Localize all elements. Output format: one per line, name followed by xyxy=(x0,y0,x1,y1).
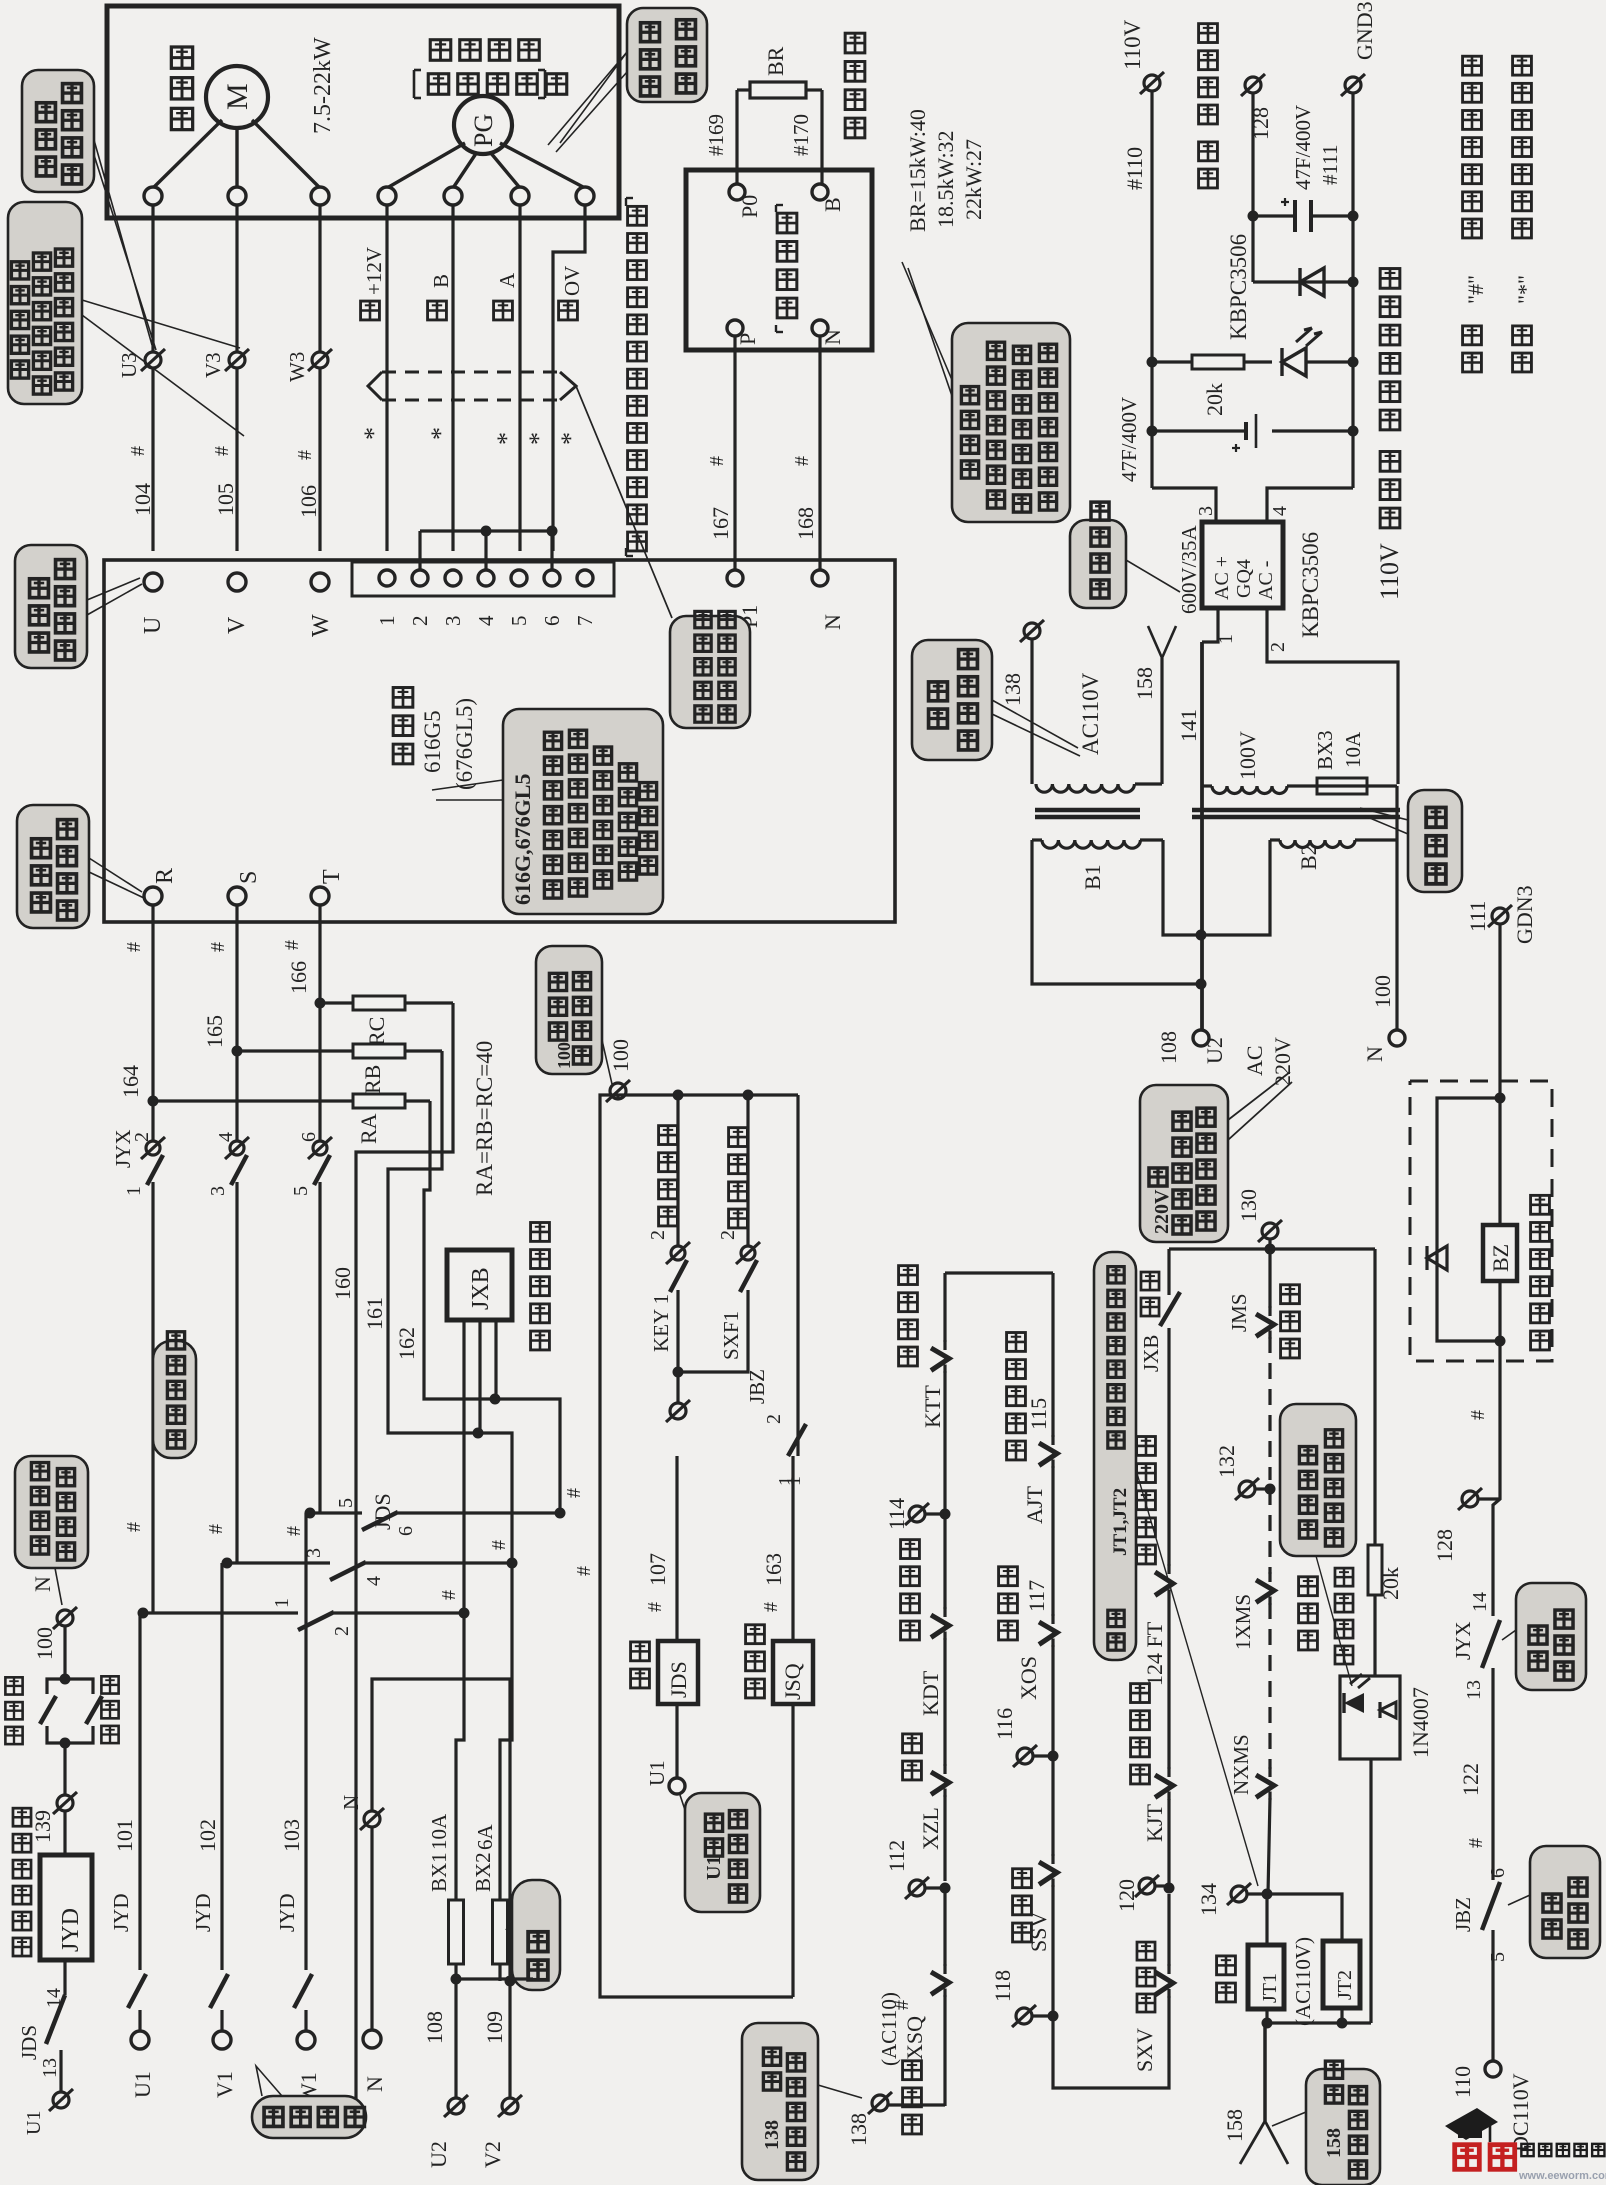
terminal 116 xyxy=(992,1708,1059,1856)
wire U2 rail junctions xyxy=(1196,930,1207,990)
switch XZL rope-tension xyxy=(931,1764,949,1881)
capacitor 47uF/400V top xyxy=(1253,105,1353,232)
winding B1 primary xyxy=(1032,840,1163,848)
wire 134 to JT1 xyxy=(1267,1894,1342,1945)
label 首层钥匙 xyxy=(659,1126,678,1226)
label 变频器故障 124 FT xyxy=(1137,1437,1167,1686)
terminal P0 xyxy=(729,184,762,218)
svg-text:110V: 110V xyxy=(1375,543,1404,600)
fuse BX3 xyxy=(1313,730,1397,794)
terminal N 100 xyxy=(1362,975,1405,1062)
svg-text:+12V: +12V xyxy=(362,247,386,295)
terminal N inverter xyxy=(812,570,845,630)
label 7.5-22kW xyxy=(310,37,336,134)
label 旋转编码 xyxy=(430,40,539,61)
terminal N brake xyxy=(812,320,845,345)
bubble 变压器 xyxy=(1360,790,1462,892)
svg-text:#170: #170 xyxy=(789,114,813,156)
bubble 三相电源 xyxy=(252,2066,366,2138)
wire GND3 rail xyxy=(1348,94,1359,488)
wire encoder red +12V xyxy=(385,205,388,551)
svg-text:U1: U1 xyxy=(23,2111,45,2135)
wire T phase down xyxy=(315,905,326,1140)
breaker contact U3 xyxy=(117,349,165,378)
terminal N main xyxy=(30,1576,77,1660)
svg-text:#110: #110 xyxy=(1122,147,1147,190)
wire FT up to JXB contact xyxy=(1167,1328,1170,1456)
switch XSQ governor xyxy=(931,1964,949,2106)
wire phase T to row xyxy=(318,1456,321,1513)
svg-text:158: 158 xyxy=(1323,2128,1345,2158)
svg-text:BX3: BX3 xyxy=(1313,730,1337,770)
svg-text:A: A xyxy=(495,272,519,288)
svg-text:616G5: 616G5 xyxy=(420,710,445,773)
svg-text:BZ: BZ xyxy=(1488,1244,1513,1272)
label 消防开关 xyxy=(729,1128,748,1228)
svg-text:1: 1 xyxy=(775,1476,797,1486)
label 1N4007 xyxy=(1408,1687,1433,1758)
label 轿门锁 xyxy=(1281,1285,1300,1358)
svg-text:GQ4: GQ4 xyxy=(1233,559,1255,598)
breaker contact W3 xyxy=(285,349,332,382)
svg-text:166: 166 xyxy=(286,961,311,994)
svg-text:100: 100 xyxy=(1370,975,1395,1008)
svg-text:100: 100 xyxy=(608,1039,633,1072)
phase W1 riser xyxy=(275,1513,321,2104)
svg-text:OV: OV xyxy=(560,266,584,296)
label 160 161 162 xyxy=(330,1267,419,1360)
label 制动电阻 xyxy=(845,33,865,138)
svg-text:110V: 110V xyxy=(1120,19,1145,70)
svg-text:KDT: KDT xyxy=(918,1670,943,1716)
svg-text:7.5-22kW: 7.5-22kW xyxy=(310,37,336,134)
wire from fuse to N rail xyxy=(1395,786,1398,840)
switch KDT pit stop xyxy=(931,1607,949,1766)
wire B2 left down xyxy=(1201,840,1270,935)
wire JDS to U1 xyxy=(675,1704,678,1778)
contact JBZ 1-2 xyxy=(666,1369,785,1424)
wires JXB outputs xyxy=(464,1320,560,1613)
label 操纵盘急停 115 AJT xyxy=(1007,1333,1051,1524)
terminal 118 xyxy=(990,1970,1059,2027)
label # 168 xyxy=(791,456,818,540)
label 上限位 SSV xyxy=(1013,1869,1051,1952)
wire 138 to winding xyxy=(1030,640,1033,784)
terminal 128 top xyxy=(1241,74,1273,140)
svg-text:5: 5 xyxy=(290,1186,312,1196)
svg-text:B: B xyxy=(429,274,453,288)
svg-text:#111: #111 xyxy=(1318,145,1342,185)
bubble 熔丝 xyxy=(506,1880,560,1990)
svg-text:#: # xyxy=(563,1488,585,1498)
wire 100 right drop xyxy=(796,1095,799,1456)
label XSQ限速器 xyxy=(902,2016,927,2134)
winding AC110V secondary xyxy=(1036,658,1162,792)
label 控柜急停 KJT xyxy=(1131,1684,1167,1842)
svg-text:112: 112 xyxy=(884,1840,909,1872)
wire 128 stub xyxy=(1248,94,1259,282)
svg-text:*: * xyxy=(359,427,388,440)
motor terminals xyxy=(144,187,329,205)
label 166 xyxy=(286,961,311,994)
svg-text:BR=15kW:40: BR=15kW:40 xyxy=(905,109,930,232)
terminal U1 bottom-left xyxy=(23,2058,73,2135)
svg-text:XOS: XOS xyxy=(1016,1656,1041,1700)
svg-text:118: 118 xyxy=(990,1970,1015,2002)
svg-text:3: 3 xyxy=(441,616,465,627)
svg-text:160: 160 xyxy=(330,1267,355,1300)
switch AJT panel stop xyxy=(1039,1273,1057,1616)
label KBPC3506 lower xyxy=(1298,532,1323,638)
terminal 100 mid xyxy=(606,1039,633,1102)
svg-text:103: 103 xyxy=(279,1819,304,1852)
svg-text:U1: U1 xyxy=(703,1856,725,1880)
motor leads xyxy=(153,120,320,188)
bubble 编码器的参数 xyxy=(548,8,707,152)
wire 310 drop xyxy=(309,1512,311,1514)
svg-text:4: 4 xyxy=(363,1576,385,1586)
svg-text:139: 139 xyxy=(30,1810,55,1843)
svg-text:KTT: KTT xyxy=(920,1385,945,1428)
svg-text:2: 2 xyxy=(408,616,432,627)
label 122 # xyxy=(1458,1763,1487,1848)
fuse BX1 xyxy=(427,1613,464,1985)
svg-text:W3: W3 xyxy=(285,352,309,382)
svg-text:B1: B1 xyxy=(1080,864,1105,890)
svg-text:#: # xyxy=(488,1540,510,1550)
svg-text:JYX: JYX xyxy=(1451,1621,1475,1660)
wires JXB inputs xyxy=(356,1310,495,2106)
label 110V电源板 柜体检修盒内 xyxy=(1375,269,1404,600)
svg-text:BR: BR xyxy=(763,46,788,76)
svg-text:20k: 20k xyxy=(1378,1567,1403,1600)
switch NXMS hall-lock last xyxy=(1229,1734,1274,1894)
svg-text:1XMS: 1XMS xyxy=(1231,1594,1255,1650)
branch mark 158 top xyxy=(1132,626,1176,700)
svg-text:M: M xyxy=(221,83,254,110)
contact JBZ blade mid xyxy=(775,1424,806,1486)
svg-text:165: 165 xyxy=(202,1015,227,1048)
terminal 132 xyxy=(1214,1445,1276,1500)
wire pin1 rail xyxy=(1200,642,1204,1030)
svg-text:161: 161 xyxy=(362,1297,387,1330)
watermark 电子下载站 xyxy=(1521,2144,1604,2156)
wire 130 to bus xyxy=(1236,1189,1282,1249)
resistor RB xyxy=(237,1044,442,1094)
svg-text:#: # xyxy=(1465,1838,1487,1848)
relay JYD box xyxy=(40,1811,92,1960)
wire 118 jog right xyxy=(1053,1996,1169,2088)
cable shield dashed xyxy=(368,372,672,618)
label JDS switch xyxy=(370,1493,395,1530)
svg-text:B: B xyxy=(820,197,845,212)
svg-text:2: 2 xyxy=(1267,642,1289,652)
bubble 安全回路全部接通时JT1、JT2吸合 xyxy=(1094,1252,1258,1886)
svg-text:V2: V2 xyxy=(480,2141,505,2168)
svg-text:1: 1 xyxy=(123,1186,145,1196)
svg-text:168: 168 xyxy=(793,507,818,540)
svg-text:108: 108 xyxy=(1156,1031,1181,1064)
bubble 变频器输出端子 xyxy=(15,545,142,668)
svg-text:RA: RA xyxy=(356,1113,381,1144)
label # 167 xyxy=(706,456,733,540)
resistor RC xyxy=(320,996,453,1046)
svg-text:U2: U2 xyxy=(1202,1037,1227,1064)
svg-text:JYD: JYD xyxy=(58,1908,84,1952)
svg-text:U2: U2 xyxy=(426,2141,451,2168)
diode brake xyxy=(1427,1246,1447,1270)
watermark cap icon xyxy=(1445,2108,1498,2142)
terminal strip notch xyxy=(352,562,614,596)
svg-text:RB: RB xyxy=(360,1065,385,1094)
terminal 138 bottom xyxy=(846,1992,945,2146)
wire P to P1 xyxy=(733,336,736,570)
braking resistor BR xyxy=(737,46,822,184)
svg-text:SSV: SSV xyxy=(1026,1912,1051,1952)
svg-text:167: 167 xyxy=(708,507,733,540)
svg-text:101: 101 xyxy=(112,1819,137,1852)
wire U3 phase xyxy=(151,205,154,551)
svg-text:N: N xyxy=(30,1576,55,1592)
wire GQ4 pin2 xyxy=(1267,608,1398,784)
svg-text:"*": "*" xyxy=(1513,275,1538,304)
svg-text:#: # xyxy=(573,1566,595,1576)
svg-text:N: N xyxy=(362,2076,387,2092)
svg-text:163: 163 xyxy=(761,1553,786,1586)
label SXV 下限位 xyxy=(1132,1942,1157,2072)
svg-text:B2: B2 xyxy=(1296,844,1321,870)
label AC110V winding xyxy=(1078,672,1103,755)
svg-text:JT2: JT2 xyxy=(1334,1970,1356,2000)
svg-text:114: 114 xyxy=(884,1498,909,1530)
wire to GQ4 pin4 xyxy=(1267,488,1353,522)
label 急停指示 xyxy=(1335,1568,1353,1664)
labels JDS poles xyxy=(271,1498,417,1636)
label 600V/35A xyxy=(1177,525,1201,615)
svg-text:20k: 20k xyxy=(1202,383,1227,416)
svg-text:GDN3: GDN3 xyxy=(1512,885,1537,944)
label # marks RST xyxy=(123,940,303,952)
svg-text:22kW:27: 22kW:27 xyxy=(961,139,986,220)
svg-text:124 FT: 124 FT xyxy=(1142,1621,1167,1686)
encoder leads xyxy=(387,143,585,188)
svg-text:5: 5 xyxy=(335,1498,357,1508)
svg-text:BX2: BX2 xyxy=(471,1852,495,1892)
coil BZ xyxy=(1483,1225,1517,1281)
label # 106 xyxy=(294,450,321,518)
wire GDN3 down xyxy=(1495,925,1506,1104)
bubble 616G,676GL5 两种变频器接线说明 xyxy=(432,709,663,914)
svg-text:122: 122 xyxy=(1458,1763,1483,1796)
inverter encoder terminals 1-7 xyxy=(379,570,593,586)
svg-text:158: 158 xyxy=(1222,2109,1247,2142)
bubble 接右边158#端子 xyxy=(1272,2061,1380,2185)
svg-text:RA=RB=RC=40: RA=RB=RC=40 xyxy=(472,1041,497,1196)
switch JYX 3-4 xyxy=(207,1132,249,1456)
label 100V xyxy=(1235,731,1260,780)
label 黄 A xyxy=(494,272,519,320)
inverter box 616G5 xyxy=(104,560,895,922)
svg-text:#: # xyxy=(438,1590,460,1600)
resistor 20k lamp xyxy=(1368,1545,1403,1676)
svg-text:2: 2 xyxy=(717,1230,739,1240)
wire B1 right down xyxy=(1163,840,1201,935)
terminal 134 xyxy=(1196,1883,1273,1916)
switch JMS door-machine xyxy=(1227,1249,1274,1480)
svg-text:#: # xyxy=(207,942,229,952)
terminal 128 right xyxy=(1432,1488,1500,1562)
terminal P xyxy=(727,320,760,345)
bubble 安全回路电源 xyxy=(912,640,1080,760)
svg-text:"#": "#" xyxy=(1463,275,1488,304)
wire encoder black 0V xyxy=(553,205,585,551)
label 安全 (AC110V) xyxy=(1217,1937,1315,2026)
svg-text:600V/35A: 600V/35A xyxy=(1177,525,1201,615)
main motor M xyxy=(206,66,268,128)
bubble 接右下角138#端子 xyxy=(742,2023,862,2180)
svg-text:1N4007: 1N4007 xyxy=(1408,1687,1433,1758)
svg-text:220V: 220V xyxy=(1151,1189,1173,1234)
svg-text:4: 4 xyxy=(215,1132,237,1142)
svg-text:#: # xyxy=(294,450,316,460)
wire 100 horizontal xyxy=(618,1090,798,1101)
svg-text:JT1,JT2: JT1,JT2 xyxy=(1110,1488,1131,1556)
svg-text:14: 14 xyxy=(1469,1592,1491,1612)
svg-text:SXF1: SXF1 xyxy=(719,1311,743,1360)
svg-text:P0: P0 xyxy=(737,195,762,218)
svg-text:KBPC3506: KBPC3506 xyxy=(1298,532,1323,638)
bubble 电梯门打开时此灯亮 xyxy=(1280,1404,1356,1686)
svg-text:102: 102 xyxy=(195,1819,220,1852)
svg-text:N: N xyxy=(820,614,845,630)
label 轿顶急停 KTT xyxy=(899,1266,945,1428)
svg-text:#169: #169 xyxy=(704,114,728,156)
terminal 110V xyxy=(1120,19,1164,190)
svg-text:2: 2 xyxy=(331,1626,353,1636)
svg-text:AC -: AC - xyxy=(1255,561,1277,600)
svg-text:18.5kW:32: 18.5kW:32 xyxy=(933,130,958,228)
winding B2 primary xyxy=(1270,840,1397,848)
svg-text:V3: V3 xyxy=(201,352,225,378)
wire JDS row 5-6 xyxy=(305,1508,566,1531)
svg-text:6: 6 xyxy=(395,1526,417,1536)
terminal GND3 xyxy=(1318,1,1377,185)
wire R phase down xyxy=(148,905,159,1140)
label #170 xyxy=(789,114,813,156)
phase V1 riser xyxy=(191,1563,237,2098)
svg-text:*: * xyxy=(524,432,553,445)
svg-text:JDS: JDS xyxy=(370,1493,395,1530)
svg-text:100: 100 xyxy=(554,1042,574,1069)
svg-text:128: 128 xyxy=(1432,1529,1457,1562)
svg-text:14: 14 xyxy=(43,1988,65,2008)
terminal U1 mid xyxy=(645,1760,685,1794)
svg-text:616G,676GL5: 616G,676GL5 xyxy=(510,774,535,905)
wire phase R to row xyxy=(151,1456,154,1613)
phase N riser xyxy=(339,1679,510,2092)
svg-text:#: # xyxy=(123,942,145,952)
svg-text:6: 6 xyxy=(540,616,564,627)
svg-text:13: 13 xyxy=(39,2058,61,2078)
svg-text:106: 106 xyxy=(296,485,321,518)
bubble 根据电梯曳引电动机功率选配制动电阻 xyxy=(902,262,1070,522)
svg-text:JYD: JYD xyxy=(191,1893,215,1932)
svg-text:#: # xyxy=(283,1526,305,1536)
svg-text:100: 100 xyxy=(32,1627,57,1660)
label [600线/周] xyxy=(414,70,567,98)
label 标注#号的导线为强电 xyxy=(1463,56,1488,372)
LED indicator board xyxy=(1282,328,1353,376)
label 抱闸,门机电源 xyxy=(1199,24,1218,188)
wire S phase down xyxy=(232,905,243,1140)
svg-text:KJT: KJT xyxy=(1142,1804,1167,1842)
switch 1XMS hall-lock first xyxy=(1231,1489,1274,1769)
svg-text:AJT: AJT xyxy=(1022,1486,1047,1524)
wire JDS row 1-2 xyxy=(138,1608,470,1631)
wire B1 left down xyxy=(1032,840,1201,984)
wire N to N-terminal xyxy=(818,336,821,570)
label 主电机 xyxy=(171,47,192,130)
switch FT inverter-fault xyxy=(1155,1456,1173,1599)
wire V3 phase xyxy=(235,205,238,551)
wire lamp bottom xyxy=(1369,1759,1372,2023)
svg-text:N: N xyxy=(1362,1046,1387,1062)
switch KEY1 first-floor key xyxy=(647,1095,690,1378)
inverter output terminals U V W xyxy=(140,573,334,637)
bubble 抱闸接触器 xyxy=(1508,1846,1600,1958)
bridge rectifier GQ4 xyxy=(1202,522,1283,608)
encoder terminals xyxy=(378,187,594,205)
wire W3 phase xyxy=(318,205,321,551)
svg-text:116: 116 xyxy=(992,1708,1017,1740)
svg-text:109: 109 xyxy=(482,2011,507,2044)
label 涨绳 XZL xyxy=(903,1734,943,1850)
svg-text:#: # xyxy=(211,446,233,456)
svg-text:R: R xyxy=(152,868,178,884)
bubble 整流电路 xyxy=(1070,502,1180,608)
wire below brake box xyxy=(1467,1341,1500,1616)
label 底坑急停 KDT xyxy=(901,1540,943,1716)
svg-text:132: 132 xyxy=(1214,1445,1239,1478)
svg-text:4: 4 xyxy=(1269,506,1291,516)
wire JSQ down loop xyxy=(791,1704,794,1997)
label 47uF/400V left xyxy=(1117,397,1141,482)
terminal strip jumper wires xyxy=(420,526,558,571)
contact JBZ 5-6 xyxy=(1451,1752,1509,2061)
svg-text:T: T xyxy=(319,869,345,884)
svg-text:W: W xyxy=(308,614,334,637)
svg-text:PG: PG xyxy=(469,114,498,147)
terminal P1 xyxy=(727,570,762,628)
svg-text:10A: 10A xyxy=(1341,731,1365,768)
svg-text:#: # xyxy=(706,456,728,466)
wire safety top xyxy=(945,1271,1053,1274)
terminal 112 xyxy=(884,1840,951,1966)
svg-text:10A: 10A xyxy=(427,1813,451,1850)
switch SXF1 fire switch xyxy=(678,1095,760,1372)
label AC 220V xyxy=(1242,1037,1295,1086)
svg-text:JYD: JYD xyxy=(109,1893,133,1932)
svg-text:158: 158 xyxy=(1132,667,1157,700)
svg-text:#: # xyxy=(205,1524,227,1534)
label #169 xyxy=(704,114,728,156)
svg-text:RC: RC xyxy=(364,1017,389,1046)
svg-text:47F/400V: 47F/400V xyxy=(1291,105,1315,190)
svg-text:117: 117 xyxy=(1024,1580,1049,1612)
svg-text:#: # xyxy=(791,456,813,466)
label 红 +12V xyxy=(361,247,386,320)
bubble 屏蔽外壳必须可靠接地 xyxy=(670,611,750,728)
